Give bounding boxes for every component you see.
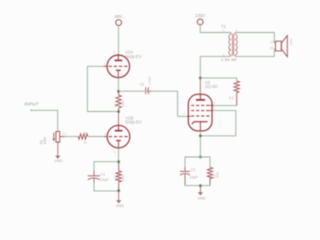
svg-text:R3: R3 [113,103,117,107]
wire node to V1B plate [118,112,120,126]
node junction V2 plate [199,77,202,80]
svg-text:300R: 300R [121,174,125,180]
op V1A triode [104,55,130,78]
resistor R2 [78,134,88,139]
node junction V1A cathode [117,90,120,93]
grid g2 dashes [191,104,209,106]
wire input [31,110,58,131]
svg-text:C1: C1 [101,172,106,176]
primary coil [230,33,232,35]
secondary coil [234,33,236,35]
svg-text:R2: R2 [84,140,88,144]
svg-text:INPUT: INPUT [24,101,39,107]
node junction cathode RC [199,156,202,159]
capacitor C3 [180,167,190,185]
svg-text:2.5K:8R: 2.5K:8R [221,57,237,62]
g3 pin stub [210,110,214,112]
ground GND V2 [199,186,201,193]
plate bar [115,59,123,61]
node junction V1B plate [117,110,120,113]
node junction V2 cathode [199,134,202,137]
svg-text:0.33uF: 0.33uF [148,76,152,84]
svg-text:GND: GND [55,159,63,163]
node junction bottom V1B [117,189,120,192]
supply node 98V [116,20,122,26]
plate bar [115,130,123,132]
transformer T1 [229,33,237,57]
svg-text:FR10: FR10 [289,39,293,46]
svg-text:235V: 235V [195,13,205,18]
wire primary bottom to V2 plate node [200,56,231,78]
plate bar [196,99,205,101]
wire supply to V1A plate [118,26,120,56]
wire cathode loop bottom [94,183,119,191]
wire secondary top to speaker [235,33,275,43]
wire R5 to V2 screen [212,105,237,107]
wire plate node to R5 [200,78,236,81]
grid g1 dashes [191,115,209,117]
wire V2 cathode down [199,131,201,157]
op V2 pentode GU-50 [187,94,214,131]
wire V1A grid left and down to V1B plate node [87,66,117,111]
grid pin stub [104,65,108,67]
core [231,34,233,56]
wire cathode loop left [94,162,119,172]
g2 pin stub [210,104,214,106]
resistor R5 [234,81,239,106]
wire supply to transformer primary [200,25,231,33]
svg-text:T1: T1 [221,24,227,29]
grid dashes [109,136,128,138]
g1 pin stub [187,115,191,117]
ground GND V1B [118,191,120,201]
svg-text:1K: 1K [228,96,232,99]
grid g3 dashes [191,110,209,112]
svg-text:R4: R4 [113,177,117,181]
svg-text:LS1: LS1 [270,40,275,44]
svg-text:C2: C2 [140,83,145,87]
capacitor C2 coupling [146,87,152,94]
grid dashes [109,65,128,67]
wire RC loop left [185,157,200,168]
node junction RC bottom [199,184,202,187]
svg-text:C3: C3 [191,168,196,172]
wire RC loop right [200,157,210,167]
wire pot wiper to R2 [64,136,78,138]
svg-text:GND: GND [116,204,124,208]
potentiometer R1 [53,132,67,143]
resistor R3 [116,92,121,112]
wire secondary bottom to speaker [235,49,275,56]
svg-text:6n2p-EV: 6n2p-EV [125,120,142,125]
cathode [116,69,121,71]
wire RC loop bottom [185,185,210,187]
supply node 235V [197,19,203,25]
op V1B triode [104,125,130,148]
svg-text:6n2p-EV: 6n2p-EV [125,54,142,59]
wire R2 to V1B grid [88,136,104,138]
resistor R6 [207,167,212,185]
wire g3 to cathode [202,111,236,136]
wire V1A cathode to node [117,78,119,92]
wire V1B cathode down [118,148,120,162]
svg-text:10uF: 10uF [190,175,199,179]
grid pin stub [104,136,108,138]
wire plate node down [199,78,201,94]
svg-text:GND: GND [198,196,206,200]
ground GND pot [57,142,59,156]
cathode [116,140,121,142]
svg-text:GU-50: GU-50 [205,84,218,89]
cathode [192,122,208,124]
svg-text:180R: 180R [216,172,220,178]
speaker LS1 [276,36,288,57]
wire C2 to V2 grid [151,91,187,116]
wiper arrow [53,133,55,139]
svg-text:100K: 100K [43,136,47,144]
wire node to C2 [119,90,145,92]
svg-text:8R: 8R [270,46,273,50]
node junction V1B cathode [117,160,120,163]
wiper lead [60,136,67,138]
capacitor C1 bypass [88,171,100,183]
resistor R4 [116,162,121,191]
svg-text:22uF: 22uF [100,178,109,182]
svg-text:150R: 150R [121,101,125,107]
svg-text:98V: 98V [115,14,123,19]
